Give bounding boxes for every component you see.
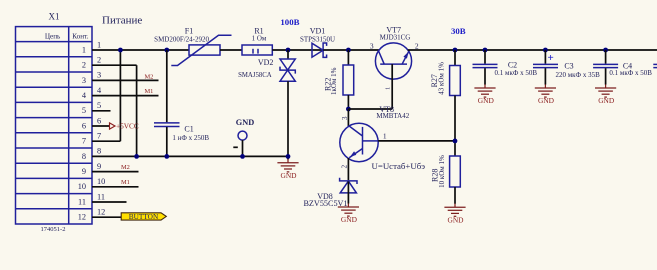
- svg-text:GND: GND: [280, 171, 297, 180]
- svg-text:9: 9: [97, 162, 101, 171]
- wire VT7 emitter to right rail: [408, 49, 657, 51]
- node C2 top: [483, 48, 488, 53]
- svg-text:0.1 мкФ x 50В: 0.1 мкФ x 50В: [495, 69, 538, 77]
- svg-text:1: 1: [97, 40, 101, 49]
- capacitor C2: [473, 61, 538, 77]
- svg-text:43 кОм 1%: 43 кОм 1%: [438, 62, 446, 95]
- wire VT8 collector to R27/R28: [378, 140, 455, 142]
- node pin1 junction: [118, 48, 123, 53]
- ground symbol at C4: [595, 84, 616, 97]
- svg-text:GND: GND: [478, 96, 495, 105]
- svg-text:8: 8: [82, 152, 86, 161]
- ground symbol at VD2: [277, 159, 298, 172]
- node pin8 junction: [134, 154, 139, 159]
- svg-text:Питание: Питание: [102, 15, 142, 27]
- wire pin6: [92, 125, 110, 127]
- wire C1 bottom: [166, 127, 168, 156]
- svg-text:174051-2: 174051-2: [41, 226, 66, 233]
- svg-text:+5VCC: +5VCC: [116, 122, 139, 131]
- capacitor C1: [154, 123, 209, 142]
- wire pin12: [92, 216, 121, 218]
- wire R22 bottom: [347, 95, 349, 109]
- svg-text:9: 9: [82, 167, 86, 176]
- svg-text:2: 2: [97, 56, 101, 65]
- connector X1 table: [16, 27, 93, 224]
- svg-text:+: +: [548, 52, 554, 64]
- power port +5VCC: [110, 123, 116, 129]
- wire C3 top: [544, 50, 546, 64]
- pin number labels on wires: [97, 40, 105, 216]
- svg-text:5: 5: [97, 101, 101, 110]
- wire vertical pin1-pin7: [119, 50, 121, 141]
- node R28 top / VT8 collector: [453, 139, 458, 144]
- svg-text:C3: C3: [564, 61, 573, 70]
- svg-text:1: 1: [383, 131, 387, 140]
- resistor R22: [323, 65, 353, 95]
- svg-text:VD1: VD1: [310, 27, 326, 36]
- svg-text:3: 3: [97, 71, 101, 80]
- TVS diode VD2: [238, 58, 295, 81]
- wire pin9: [92, 171, 139, 173]
- port BUTTON flag: [121, 213, 166, 220]
- svg-text:100В: 100В: [280, 17, 299, 27]
- ground symbol at C3: [535, 84, 556, 97]
- transistor VT8: [340, 105, 410, 168]
- svg-text:11: 11: [97, 192, 105, 201]
- diode VD1: [300, 27, 335, 58]
- zener diode VD8: [303, 178, 357, 208]
- wire pin3: [92, 79, 159, 81]
- wire VD8 anode to ground: [347, 182, 349, 204]
- svg-text:12: 12: [78, 213, 86, 222]
- svg-text:10 кОм 1%: 10 кОм 1%: [438, 155, 446, 188]
- svg-text:SMAJ58CA: SMAJ58CA: [238, 72, 272, 79]
- svg-text:F1: F1: [185, 27, 193, 36]
- node C1 top: [164, 48, 169, 53]
- svg-text:BUTTON: BUTTON: [129, 212, 159, 221]
- wire VD2 top: [287, 50, 289, 59]
- svg-text:2: 2: [82, 61, 86, 70]
- svg-text:3: 3: [370, 42, 374, 51]
- svg-text:Цепь: Цепь: [45, 33, 61, 41]
- capacitor C3: [533, 61, 600, 79]
- node VD2/GND: [286, 154, 291, 159]
- fuse F1: [154, 27, 231, 66]
- capacitor C5 (clipped at edge): [653, 64, 657, 67]
- wire pin5: [92, 110, 111, 112]
- wire R27 top: [454, 50, 456, 66]
- node C3 top: [543, 48, 548, 53]
- svg-text:GND: GND: [236, 118, 254, 127]
- resistor R28: [431, 155, 461, 188]
- connector pin numbers inside table: [78, 45, 87, 221]
- svg-text:M1: M1: [121, 179, 130, 186]
- svg-text:220 мкФ x 35В: 220 мкФ x 35В: [555, 71, 600, 79]
- node C1 bottom: [164, 154, 169, 159]
- svg-text:MMBTA42: MMBTA42: [376, 112, 409, 120]
- svg-text:GND: GND: [598, 96, 615, 105]
- wire pin11: [92, 201, 127, 203]
- wire pin8 / GND return line: [92, 155, 288, 157]
- transistor VT7: [370, 25, 419, 109]
- svg-text:0.1 мкФ x 50В: 0.1 мкФ x 50В: [609, 69, 652, 77]
- svg-text:GND: GND: [447, 215, 464, 224]
- svg-text:8: 8: [97, 147, 101, 156]
- wire C2 bottom: [484, 68, 486, 84]
- svg-text:STPS3150U: STPS3150U: [300, 35, 335, 43]
- svg-text:1кОм 1%: 1кОм 1%: [330, 67, 338, 95]
- svg-text:M2: M2: [145, 73, 154, 80]
- wire pin4: [92, 95, 159, 97]
- wire pin1 / main rail to F1: [92, 49, 189, 51]
- svg-text:Конт.: Конт.: [72, 33, 88, 41]
- wire vertical pin2-pin8: [136, 65, 138, 156]
- svg-text:4: 4: [97, 86, 102, 95]
- svg-text:1: 1: [82, 45, 86, 54]
- resistor R1: [242, 27, 272, 56]
- svg-text:MJD31CG: MJD31CG: [380, 34, 411, 42]
- svg-text:5: 5: [82, 106, 86, 115]
- wire pin2: [92, 64, 137, 66]
- wire R22 top: [347, 50, 349, 65]
- wire VD1 to VT7: [323, 49, 379, 51]
- svg-text:1 Ом: 1 Ом: [252, 35, 267, 43]
- svg-text:3: 3: [82, 76, 86, 85]
- wire VT8 emitter down: [347, 158, 349, 180]
- node base node: [346, 107, 351, 112]
- svg-text:C1: C1: [184, 124, 193, 133]
- node VD2 top: [286, 48, 291, 53]
- node GND port: [240, 154, 245, 159]
- svg-text:30В: 30В: [451, 26, 466, 36]
- svg-text:10: 10: [78, 182, 86, 191]
- svg-text:6: 6: [82, 121, 86, 130]
- svg-text:4: 4: [82, 91, 87, 100]
- wire R28 bottom to ground: [454, 187, 456, 204]
- svg-text:X1: X1: [49, 12, 60, 22]
- resistor R27: [430, 62, 460, 96]
- wire R27 bottom: [454, 96, 456, 157]
- svg-text:1 нФ x 250В: 1 нФ x 250В: [172, 134, 209, 142]
- svg-text:2: 2: [341, 164, 349, 168]
- svg-text:1: 1: [385, 87, 392, 90]
- node C4 top: [603, 48, 608, 53]
- wire C4 top: [605, 50, 607, 64]
- ground symbol at C2: [474, 84, 495, 97]
- svg-text:11: 11: [78, 197, 86, 206]
- svg-text:7: 7: [97, 132, 101, 141]
- wire VT8 base vertical: [347, 109, 349, 126]
- wire C1 top: [166, 50, 168, 122]
- svg-text:GND: GND: [538, 96, 555, 105]
- svg-text:GND: GND: [341, 215, 358, 224]
- wire pin10: [92, 186, 139, 188]
- svg-text:12: 12: [97, 208, 105, 217]
- svg-text:10: 10: [97, 177, 105, 186]
- svg-text:SMD200F/24-2920: SMD200F/24-2920: [154, 35, 209, 43]
- wire C3 bottom: [544, 68, 546, 84]
- wire R1 to VD1: [272, 49, 323, 51]
- svg-text:M1: M1: [145, 88, 154, 95]
- svg-text:M2: M2: [121, 164, 130, 171]
- wire C2 top: [484, 50, 486, 64]
- wire pin7: [92, 140, 120, 142]
- svg-text:U=Uстаб+Uбэ: U=Uстаб+Uбэ: [372, 161, 426, 171]
- node R22 top: [346, 48, 351, 53]
- wire VD2 bottom: [287, 81, 289, 159]
- node R27 top: [453, 48, 458, 53]
- svg-text:VD2: VD2: [258, 58, 274, 67]
- ground symbol at R28: [444, 204, 465, 217]
- svg-text:7: 7: [82, 137, 86, 146]
- svg-text:6: 6: [97, 116, 101, 125]
- wire C4 bottom: [605, 68, 607, 84]
- wire F1 to R1: [220, 49, 242, 51]
- power port GND (circle): [233, 118, 254, 156]
- wire base node to VT7 base: [348, 108, 392, 110]
- capacitor C4: [593, 62, 652, 78]
- ground symbol at VD8: [338, 203, 359, 216]
- svg-text:3: 3: [341, 116, 349, 120]
